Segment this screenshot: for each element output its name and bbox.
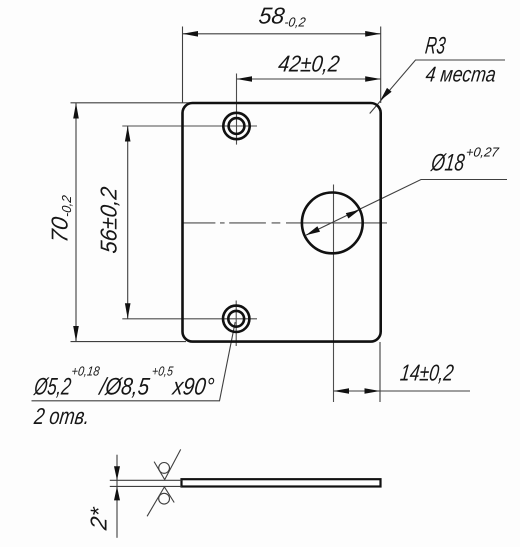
svg-text:/Ø8,5: /Ø8,5 (97, 374, 152, 401)
svg-text:x90°: x90° (170, 374, 216, 401)
svg-text:Ø18: Ø18 (429, 150, 467, 177)
svg-text:+0,18: +0,18 (71, 364, 101, 379)
svg-text:-0,2: -0,2 (284, 15, 308, 30)
svg-text:14±0,2: 14±0,2 (399, 360, 455, 386)
svg-text:+0,27: +0,27 (465, 145, 500, 160)
svg-text:58: 58 (257, 3, 286, 29)
svg-text:56±0,2: 56±0,2 (96, 185, 122, 254)
svg-text:+0,5: +0,5 (151, 364, 174, 379)
svg-text:2 отв.: 2 отв. (32, 403, 91, 429)
svg-text:42±0,2: 42±0,2 (277, 51, 341, 77)
svg-text:R3: R3 (424, 33, 448, 60)
svg-text:2*: 2* (86, 505, 112, 532)
svg-text:Ø5,2: Ø5,2 (32, 374, 73, 401)
svg-text:4 места: 4 места (424, 63, 497, 87)
